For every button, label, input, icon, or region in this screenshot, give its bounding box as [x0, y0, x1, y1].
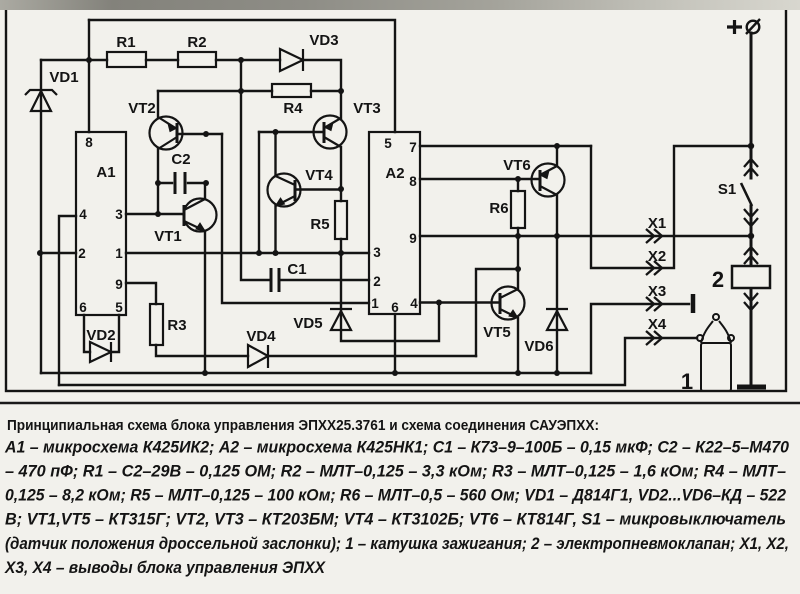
IC A1 — [76, 132, 126, 315]
connector chevrons above valve — [744, 247, 758, 264]
wire: VT6 emitter up / collector down — [556, 146, 558, 236]
svg-text:VD1: VD1 — [49, 69, 78, 86]
wire: A1 pin3 to VT1 base — [126, 213, 184, 215]
svg-text:В; VT1,VT5 – КТ315Г; VT2, VT3: В; VT1,VT5 – КТ315Г; VT2, VT3 – КТ203БМ;… — [5, 511, 786, 529]
svg-text:– 470 пФ; R1 – С2–29В – 0,125: – 470 пФ; R1 – С2–29В – 0,125 ОМ; R2 – М… — [5, 463, 786, 481]
svg-text:X2: X2 — [648, 248, 666, 265]
wire: VT2 top stem — [157, 91, 159, 117]
transistor VT4 — [268, 167, 334, 207]
svg-text:А1 – микросхема К425ИК2; А2 –: А1 – микросхема К425ИК2; А2 – микросхема… — [4, 439, 789, 457]
svg-text:Принципиальная схема блока упр: Принципиальная схема блока управления ЭП… — [7, 417, 599, 434]
resistor R4 — [272, 84, 311, 117]
svg-text:S1: S1 — [718, 181, 736, 198]
svg-text:1: 1 — [681, 369, 693, 394]
wire: S1 / valve chain x751 — [750, 33, 753, 385]
svg-text:9: 9 — [115, 277, 123, 292]
zener diode VD1 — [25, 69, 79, 111]
svg-text:А1: А1 — [96, 164, 115, 181]
wire: X3 from bus1 — [591, 304, 689, 373]
wire: A2 pin9 / X1 row — [420, 235, 751, 237]
electro-pneumatic valve 2 — [712, 266, 770, 292]
X3 chassis terminal bar — [691, 294, 696, 313]
connector X2 — [646, 248, 666, 275]
svg-text:7: 7 — [409, 140, 417, 155]
wire: R4 row y91 and VT2 top feed — [158, 90, 341, 92]
svg-text:6: 6 — [79, 300, 87, 315]
wire: VD1 branch — [40, 60, 42, 373]
plus supply terminal — [727, 19, 760, 34]
rule line below schematic — [0, 402, 800, 404]
svg-text:9: 9 — [409, 231, 417, 246]
resistor R2 — [178, 34, 216, 67]
wire: R3 bottom to VD4 row y356 — [156, 345, 476, 356]
ground symbol right — [737, 385, 766, 390]
wire: A2 pin8 to VT6 base — [420, 178, 540, 180]
wire: pin8 stem / supply riser — [88, 20, 90, 132]
diode VD2 — [86, 327, 115, 362]
connector chevrons below valve — [744, 293, 758, 310]
svg-text:VT1: VT1 — [154, 228, 182, 245]
wire: A2 pin7 row — [420, 145, 591, 147]
svg-text:VT5: VT5 — [483, 324, 511, 341]
svg-text:1: 1 — [371, 296, 379, 311]
svg-text:C2: C2 — [171, 151, 190, 168]
svg-text:VT4: VT4 — [305, 167, 333, 184]
svg-text:R4: R4 — [283, 100, 303, 117]
svg-text:6: 6 — [391, 300, 399, 315]
svg-text:R3: R3 — [167, 317, 186, 334]
wire: main +supply rail y60 — [41, 60, 341, 91]
svg-text:1: 1 — [115, 246, 123, 261]
svg-text:X1: X1 — [648, 215, 666, 232]
wire: A2 pin6 stem — [394, 314, 396, 373]
diode VD5 — [293, 309, 352, 332]
transistor VT3 — [314, 100, 381, 149]
transistor VT2 — [128, 100, 182, 150]
wire: A2 pin4 to VT5 base — [420, 301, 500, 303]
resistor R1 — [107, 34, 146, 67]
capacitor C2 — [171, 151, 190, 194]
svg-text:X3: X3 — [648, 283, 666, 300]
transistor VT1 — [154, 199, 216, 246]
wire: R6 stems — [517, 179, 519, 236]
connector chevrons above S1 — [744, 159, 758, 176]
svg-text:VD4: VD4 — [246, 328, 276, 345]
wire: VT3 base row y132 — [259, 131, 324, 133]
resistor R6 — [489, 191, 525, 228]
wire: A1 pin9 to R3 — [126, 283, 156, 304]
wire: vertical R2/VD3 node x241 down to C1 — [241, 60, 270, 280]
wire: x518 node chain VT5 collector — [517, 236, 519, 289]
svg-text:2: 2 — [373, 274, 381, 289]
wire: VD5 chain x341 — [341, 253, 439, 341]
wire: C2 links — [158, 182, 206, 184]
svg-text:C1: C1 — [287, 261, 306, 278]
wire: VT4 base to R5 node — [295, 188, 341, 190]
svg-text:VT3: VT3 — [353, 100, 381, 117]
svg-text:0,125 – 8,2 кОм; R5 – МЛТ–0,12: 0,125 – 8,2 кОм; R5 – МЛТ–0,125 – 100 кО… — [5, 487, 786, 505]
switch S1 blade — [718, 181, 752, 206]
wire: R5 stems — [340, 189, 342, 253]
svg-text:8: 8 — [85, 135, 93, 150]
wire: VT4 collector riser — [274, 132, 276, 176]
svg-text:VD6: VD6 — [524, 338, 553, 355]
transistor VT5 — [483, 287, 524, 342]
diode VD6 — [524, 309, 568, 355]
connector X3 — [646, 283, 666, 311]
wire: A1 pin2 to VD1 node — [40, 252, 76, 254]
capacitor C1 — [271, 261, 307, 292]
svg-text:R6: R6 — [489, 200, 508, 217]
connector X1 — [646, 215, 666, 243]
ignition coil 1 — [681, 314, 734, 394]
wire: bus2 to X4 — [59, 338, 697, 385]
wire: VT4 emitter down — [274, 206, 276, 253]
svg-text:R5: R5 — [310, 216, 329, 233]
wire: bus to ground left (bus1) — [41, 372, 591, 374]
connector chevrons below S1 — [744, 209, 758, 226]
wire: A1 pin4 left riser to bus2 — [59, 216, 76, 385]
resistor R3 — [150, 304, 187, 345]
svg-text:X4: X4 — [648, 316, 667, 333]
svg-text:VD5: VD5 — [293, 315, 322, 332]
wire: VD6 chain x557 — [556, 236, 558, 373]
svg-text:2: 2 — [712, 267, 724, 292]
svg-text:5: 5 — [384, 136, 392, 151]
diode VD4 — [246, 328, 276, 368]
svg-text:VT2: VT2 — [128, 100, 156, 117]
wire: VD4 riser x476 to VT5 collector node — [476, 269, 518, 356]
svg-text:(датчик положения дроссельной: (датчик положения дроссельной заслонки);… — [5, 535, 789, 553]
wire: VT1 emitter down to bus1 — [204, 231, 206, 373]
wire: VT5 emitter down — [517, 318, 519, 373]
svg-text:Х3, Х4 – выводы блока управлен: Х3, Х4 – выводы блока управления ЭПХХ — [4, 559, 326, 577]
IC A2 — [369, 132, 420, 315]
svg-text:4: 4 — [410, 296, 418, 311]
svg-text:5: 5 — [115, 300, 123, 315]
wire: x222 riser to A2 pin1 — [222, 134, 369, 303]
wire: VD2 stems A1 pin6 pin5 — [84, 315, 119, 352]
wire: VT2 emitter row y134 — [177, 133, 222, 135]
wire: A1 pin1 to A2 pin3 row y253 — [126, 252, 369, 254]
svg-text:А2: А2 — [385, 165, 404, 182]
svg-text:4: 4 — [79, 207, 87, 222]
resistor R5 — [310, 201, 347, 239]
wire: x259 riser to pin1/pin3 row — [258, 132, 260, 253]
svg-text:R2: R2 — [187, 34, 206, 51]
wire: C1 right to A2 pin2 — [281, 279, 369, 281]
wire: top rail A1.8 to A2.5 — [89, 20, 395, 132]
connector X4 — [646, 316, 667, 345]
svg-text:VD2: VD2 — [86, 327, 115, 344]
transistor VT6 — [503, 157, 564, 197]
svg-text:3: 3 — [115, 207, 123, 222]
wire: X2 loop x591-x674 — [591, 146, 751, 268]
svg-text:3: 3 — [373, 245, 381, 260]
svg-text:8: 8 — [409, 174, 417, 189]
svg-text:R1: R1 — [116, 34, 135, 51]
wire: VT1 collector up — [204, 183, 206, 199]
svg-text:2: 2 — [78, 246, 86, 261]
svg-text:VD3: VD3 — [309, 32, 338, 49]
wire: VT3 emitter up / collector down — [340, 91, 342, 189]
diode VD3 — [280, 32, 339, 71]
wire: VT2 collector chain x158 — [157, 149, 159, 214]
svg-text:VT6: VT6 — [503, 157, 531, 174]
schematic frame — [6, 5, 786, 391]
